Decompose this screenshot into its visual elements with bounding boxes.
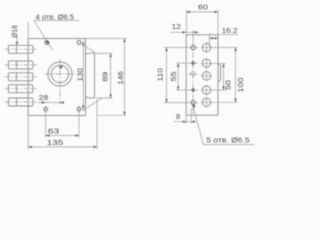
big hole 4 xyxy=(202,86,210,94)
connector cylinder 1 xyxy=(8,45,32,53)
left view body xyxy=(28,39,85,116)
big hole 1 xyxy=(202,43,210,51)
svg-text:135: 135 xyxy=(47,138,64,147)
svg-text:12: 12 xyxy=(172,22,182,31)
svg-text:8: 8 xyxy=(176,112,180,121)
svg-text:110: 110 xyxy=(156,68,165,82)
dim 135 xyxy=(27,22,29,149)
connector cylinder 2 xyxy=(8,61,32,69)
hole top-right xyxy=(77,41,81,45)
small arrow inside circle xyxy=(59,65,64,69)
dim 60 xyxy=(185,10,187,35)
small hole 5 xyxy=(191,100,195,104)
axis 4 xyxy=(5,88,37,90)
svg-text:130: 130 xyxy=(76,68,85,82)
big hole 3 xyxy=(202,72,210,80)
small hole 3 xyxy=(191,72,195,76)
axis 1 xyxy=(5,48,37,50)
dim 146 xyxy=(86,38,127,40)
axis 3 xyxy=(5,76,37,78)
dim d18 xyxy=(16,36,18,45)
dim 63 xyxy=(45,112,47,138)
svg-text:28: 28 xyxy=(39,93,49,102)
small square 4 xyxy=(191,88,196,93)
label 4 otv xyxy=(34,20,79,22)
dim 110 xyxy=(164,47,183,49)
small hole 1 xyxy=(191,45,195,49)
side block xyxy=(86,53,95,98)
connector cylinder 5 xyxy=(8,98,32,106)
svg-text:4 отв. Ø6.5: 4 отв. Ø6.5 xyxy=(36,14,75,21)
svg-text:55: 55 xyxy=(169,72,178,82)
svg-text:50: 50 xyxy=(224,80,233,90)
big circle inner xyxy=(51,65,68,82)
dim 16.2 xyxy=(208,34,210,47)
svg-text:60: 60 xyxy=(198,2,208,11)
svg-text:16.2: 16.2 xyxy=(222,26,238,35)
dim 55 xyxy=(176,62,189,64)
axis 2 xyxy=(5,64,37,66)
dim 89 line xyxy=(110,53,112,98)
svg-text:146: 146 xyxy=(116,71,125,85)
right body xyxy=(186,35,218,115)
svg-text:5 отв. Ø6.5: 5 отв. Ø6.5 xyxy=(206,138,249,145)
big hole 5 xyxy=(202,98,210,106)
dim 130 xyxy=(81,41,86,43)
dim 50 xyxy=(211,63,226,65)
right tab xyxy=(218,64,221,82)
circle centerlines xyxy=(45,73,76,75)
big hex 2 xyxy=(202,59,210,67)
small holes column centerline xyxy=(192,42,194,116)
small square 2 xyxy=(191,61,196,66)
svg-text:63: 63 xyxy=(48,126,60,135)
dim 8 xyxy=(185,115,187,123)
svg-text:100: 100 xyxy=(236,77,245,92)
connector cylinder 3 xyxy=(8,73,32,81)
dim 100 xyxy=(211,47,238,49)
hole bottom-left xyxy=(44,107,48,111)
dim 89 slant extensions xyxy=(81,43,96,53)
dim 28 xyxy=(38,102,62,104)
leader 5 holes xyxy=(193,106,204,145)
connector cylinder 4 xyxy=(8,85,32,93)
leader 4 holes xyxy=(34,21,52,51)
hole top-left xyxy=(45,41,49,45)
dim 12 xyxy=(192,30,194,41)
axis 5 xyxy=(5,101,37,103)
svg-text:Ø18: Ø18 xyxy=(10,25,19,38)
svg-text:89: 89 xyxy=(100,72,109,82)
big circle outer xyxy=(48,62,72,86)
hole bottom-right xyxy=(77,107,81,111)
